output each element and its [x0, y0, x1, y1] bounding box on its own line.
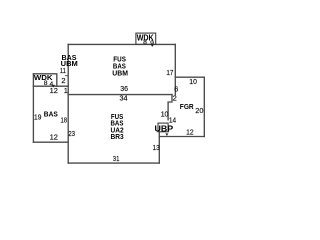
svg-text:14: 14 [169, 115, 176, 124]
svg-text:UBM: UBM [112, 68, 128, 77]
svg-text:19: 19 [34, 113, 41, 122]
svg-text:18: 18 [61, 116, 68, 125]
svg-text:1: 1 [64, 86, 68, 95]
svg-text:12: 12 [50, 132, 58, 141]
svg-text:23: 23 [68, 129, 75, 138]
svg-text:36: 36 [120, 84, 128, 93]
svg-text:12: 12 [186, 128, 194, 137]
svg-text:8: 8 [44, 80, 48, 87]
svg-text:17: 17 [166, 68, 173, 77]
svg-text:2: 2 [61, 76, 65, 85]
svg-text:8: 8 [143, 39, 147, 46]
svg-text:31: 31 [113, 154, 120, 163]
svg-text:4: 4 [50, 81, 54, 88]
svg-text:10: 10 [161, 110, 169, 119]
svg-text:20: 20 [195, 106, 203, 115]
svg-text:BR3: BR3 [111, 132, 124, 141]
svg-text:FGR: FGR [180, 102, 194, 111]
svg-text:34: 34 [120, 94, 128, 103]
svg-text:6: 6 [174, 85, 178, 94]
svg-text:2: 2 [173, 94, 177, 103]
svg-text:11: 11 [60, 66, 66, 75]
svg-text:13: 13 [153, 143, 160, 152]
svg-text:UBP: UBP [155, 124, 174, 134]
svg-text:10: 10 [189, 77, 197, 86]
svg-text:BAS: BAS [44, 110, 58, 119]
